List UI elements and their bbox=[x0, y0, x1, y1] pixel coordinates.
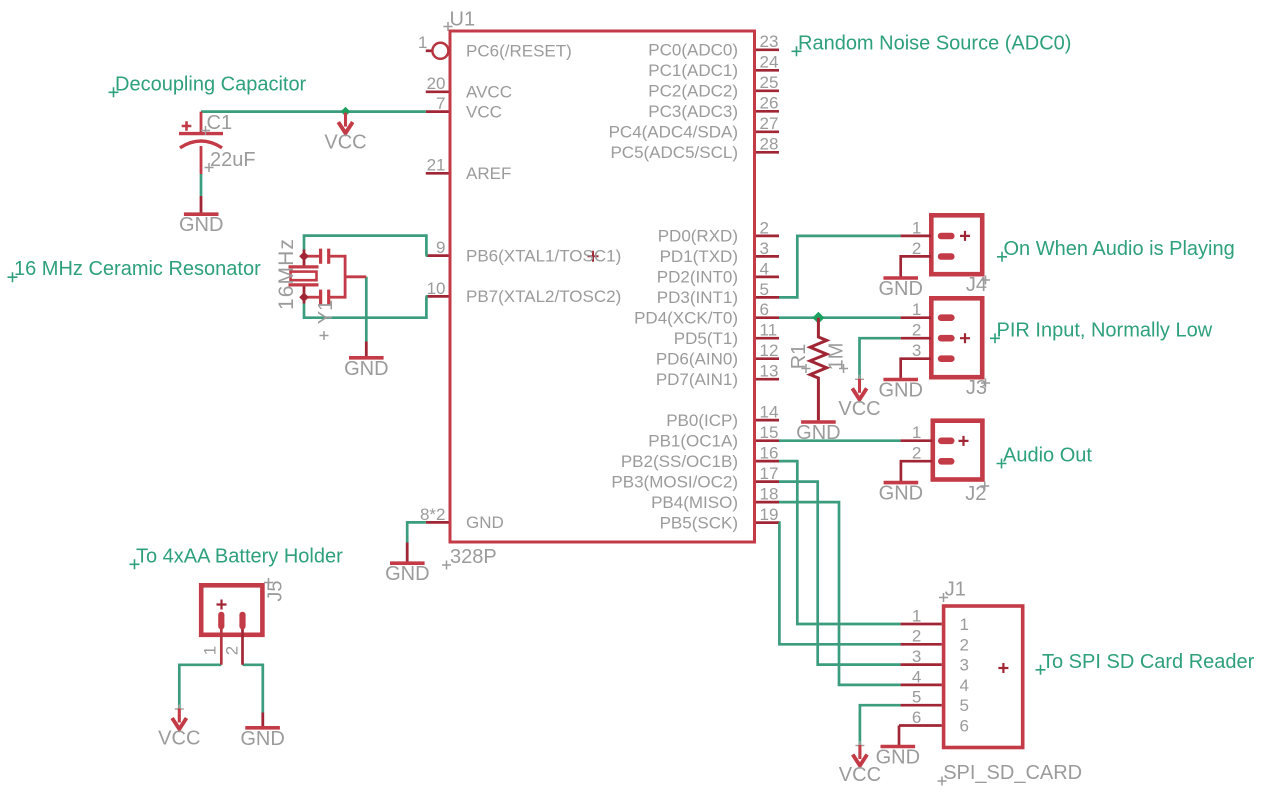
power VCC symbol near U1 pin 7 bbox=[324, 113, 366, 154]
svg-text:GND: GND bbox=[466, 513, 504, 532]
pin 6 PD4(XCK/T0) (right) bbox=[634, 300, 779, 327]
svg-text:27: 27 bbox=[760, 114, 779, 133]
connector J3 body bbox=[931, 298, 982, 377]
svg-text:PB6(XTAL1/TOSC1): PB6(XTAL1/TOSC1) bbox=[466, 246, 621, 265]
svg-text:18: 18 bbox=[760, 485, 779, 504]
wire PB2/SS net: U1 pin 16 to J1 pin 1 bbox=[779, 461, 901, 624]
pin 24 PC1(ADC1) (right) bbox=[648, 53, 779, 80]
junction resonator top node bbox=[299, 251, 309, 261]
pin 15 PB1(OC1A) (right) bbox=[648, 423, 779, 450]
wire PB4/MISO net: U1 pin 18 to J1 pin 4 bbox=[779, 502, 901, 685]
resistor R1 1M bbox=[810, 318, 827, 421]
svg-text:25: 25 bbox=[760, 73, 779, 92]
svg-text:3: 3 bbox=[760, 239, 769, 258]
svg-text:6: 6 bbox=[912, 708, 921, 727]
J5 pin 2 stub bbox=[241, 629, 244, 665]
svg-text:To SPI SD Card Reader: To SPI SD Card Reader bbox=[1042, 651, 1255, 673]
svg-text:1: 1 bbox=[912, 218, 921, 237]
svg-text:Decoupling Capacitor: Decoupling Capacitor bbox=[115, 73, 307, 95]
pin 16 PB2(SS/OC1B) (right) bbox=[621, 444, 779, 471]
svg-text:VCC: VCC bbox=[839, 764, 881, 786]
svg-text:3: 3 bbox=[912, 647, 921, 666]
J3 pin 3 stub bbox=[901, 359, 931, 379]
wire PD4 net: U1 pin 6 to J3 pin 1 bbox=[779, 316, 901, 319]
svg-text:2: 2 bbox=[912, 444, 921, 463]
power VCC symbol at J3 pin 2 bbox=[838, 375, 880, 420]
svg-text:Random Noise Source (ADC0): Random Noise Source (ADC0) bbox=[798, 32, 1071, 54]
svg-text:PD4(XCK/T0): PD4(XCK/T0) bbox=[634, 308, 738, 327]
pin 4 PD2(INT0) (right) bbox=[657, 259, 779, 286]
svg-text:2: 2 bbox=[912, 321, 921, 340]
svg-text:PB7(XTAL2/TOSC2): PB7(XTAL2/TOSC2) bbox=[466, 287, 621, 306]
svg-text:10: 10 bbox=[427, 279, 446, 298]
svg-text:J3: J3 bbox=[966, 377, 987, 399]
svg-text:GND: GND bbox=[385, 563, 429, 585]
pin 9 PB6(XTAL1/TOSC1) (left) bbox=[426, 238, 621, 265]
svg-text:GND: GND bbox=[879, 483, 923, 505]
svg-text:PD0(RXD): PD0(RXD) bbox=[658, 227, 738, 246]
J2 pin 1 stub bbox=[901, 439, 933, 442]
svg-text:GND: GND bbox=[179, 214, 223, 236]
svg-text:2: 2 bbox=[760, 218, 769, 237]
svg-text:VCC: VCC bbox=[158, 728, 200, 750]
ground below resonator Y1 bbox=[344, 358, 388, 380]
J1 pin 3 stub and numbers bbox=[901, 663, 942, 666]
svg-text:3: 3 bbox=[912, 341, 921, 360]
svg-text:PB0(ICP): PB0(ICP) bbox=[666, 411, 738, 430]
pin 7 VCC (left) bbox=[426, 94, 502, 121]
svg-text:On When Audio is Playing: On When Audio is Playing bbox=[1004, 238, 1235, 260]
svg-text:PC6(/RESET): PC6(/RESET) bbox=[466, 42, 572, 61]
svg-text:21: 21 bbox=[427, 156, 446, 175]
svg-text:PD6(AIN0): PD6(AIN0) bbox=[656, 349, 738, 368]
svg-text:15: 15 bbox=[760, 423, 779, 442]
svg-text:9: 9 bbox=[436, 238, 445, 257]
svg-text:PD3(INT1): PD3(INT1) bbox=[657, 288, 738, 307]
pin 28 PC5(ADC5/SCL) (right) bbox=[610, 135, 779, 162]
junction on VCC net at VCC symbol tap bbox=[341, 107, 351, 117]
op IC U1 ATmega328P body rectangle bbox=[450, 31, 755, 542]
connector J5 body (battery holder) bbox=[201, 585, 262, 635]
svg-text:11: 11 bbox=[760, 321, 778, 340]
capacitor C1 22uF (polarized) bbox=[179, 112, 223, 213]
pin 23 PC0(ADC0) (right) bbox=[648, 32, 779, 59]
wire XTAL2 net: resonator bottom to U1 pin 10 bbox=[304, 296, 426, 317]
wire PB1 net: U1 pin 15 to J2 pin 1 bbox=[779, 439, 901, 442]
svg-text:1: 1 bbox=[912, 423, 921, 442]
J2 pin 2 stub bbox=[901, 461, 933, 481]
ground at J2 pin 2 bbox=[879, 483, 923, 505]
wire XTAL1 net: resonator top to U1 pin 9 bbox=[304, 236, 426, 256]
svg-text:PD1(TXD): PD1(TXD) bbox=[660, 247, 738, 266]
svg-text:GND: GND bbox=[344, 358, 388, 380]
pin 3 PD1(TXD) (right) bbox=[660, 239, 779, 266]
svg-text:C1: C1 bbox=[207, 112, 233, 134]
connector J2 body bbox=[933, 421, 983, 480]
pin 25 PC2(ADC2) (right) bbox=[648, 73, 779, 100]
wire PB3/MOSI net: U1 pin 17 to J1 pin 3 bbox=[779, 482, 901, 665]
svg-text:SPI_SD_CARD: SPI_SD_CARD bbox=[943, 762, 1082, 784]
svg-text:PIR Input, Normally Low: PIR Input, Normally Low bbox=[997, 319, 1213, 341]
svg-text:17: 17 bbox=[760, 464, 779, 483]
ground at J1 pin 6 bbox=[876, 747, 920, 769]
pin 8*2 GND (left) bbox=[420, 505, 504, 532]
svg-text:PD7(AIN1): PD7(AIN1) bbox=[656, 370, 738, 389]
pin 19 PB5(SCK) (right) bbox=[660, 505, 779, 532]
ground below U1 bbox=[385, 563, 429, 585]
pin 20 AVCC (left) bbox=[426, 74, 512, 101]
svg-text:GND: GND bbox=[876, 747, 920, 769]
J4 pin 1 stub bbox=[901, 235, 931, 238]
svg-text:20: 20 bbox=[427, 74, 446, 93]
connector J1 body bbox=[944, 606, 1023, 748]
wire U1 GND pin to ground bbox=[407, 522, 426, 542]
J1 pin 1 stub and numbers bbox=[901, 623, 942, 626]
svg-text:23: 23 bbox=[760, 32, 779, 51]
svg-text:PB4(MISO): PB4(MISO) bbox=[651, 493, 738, 512]
svg-text:GND: GND bbox=[878, 380, 922, 402]
svg-text:2: 2 bbox=[960, 635, 969, 654]
svg-text:4: 4 bbox=[760, 259, 769, 278]
wire PD3 net: U1 pin 5 to J4 pin 1 bbox=[779, 236, 901, 298]
svg-text:5: 5 bbox=[912, 688, 921, 707]
svg-text:4: 4 bbox=[960, 676, 969, 695]
svg-text:PB2(SS/OC1B): PB2(SS/OC1B) bbox=[621, 452, 738, 471]
pin 11 PD5(T1) (right) bbox=[674, 321, 779, 348]
svg-text:14: 14 bbox=[760, 403, 779, 422]
svg-text:PD5(T1): PD5(T1) bbox=[674, 329, 738, 348]
pin 2 PD0(RXD) (right) bbox=[658, 218, 779, 245]
svg-text:PC5(ADC5/SCL): PC5(ADC5/SCL) bbox=[610, 143, 738, 162]
svg-text:8*2: 8*2 bbox=[420, 505, 446, 524]
junction on PD4 net at R1 bbox=[812, 312, 824, 324]
J1 pin 6 ground lead bbox=[898, 726, 901, 746]
svg-text:22uF: 22uF bbox=[210, 149, 256, 171]
wire J1 pin 5 to VCC bbox=[860, 705, 901, 745]
svg-text:PB3(MOSI/OC2): PB3(MOSI/OC2) bbox=[611, 472, 738, 491]
J1 pin 6 stub and numbers bbox=[899, 724, 942, 727]
pin 5 PD3(INT1) (right) bbox=[657, 280, 779, 307]
J5 pin 2 ground lead bbox=[261, 713, 264, 727]
power VCC symbol at J1 pin 5 bbox=[839, 741, 881, 786]
J1 pin 2 stub and numbers bbox=[901, 643, 942, 646]
power VCC symbol at J5 pin 1 bbox=[158, 705, 200, 750]
svg-text:1: 1 bbox=[912, 606, 921, 625]
svg-text:1: 1 bbox=[960, 615, 969, 634]
svg-text:Y1: Y1 bbox=[315, 300, 337, 324]
ground lead below U1 GND pin bbox=[406, 543, 409, 562]
svg-text:16 MHz Ceramic Resonator: 16 MHz Ceramic Resonator bbox=[14, 258, 261, 280]
pin 17 PB3(MOSI/OC2) (right) bbox=[611, 464, 779, 491]
svg-text:To 4xAA Battery Holder: To 4xAA Battery Holder bbox=[136, 545, 343, 567]
svg-text:6: 6 bbox=[760, 300, 769, 319]
svg-text:U1: U1 bbox=[450, 9, 476, 31]
pin 27 PC4(ADC4/SDA) (right) bbox=[609, 114, 779, 141]
svg-text:GND: GND bbox=[878, 278, 922, 300]
svg-text:19: 19 bbox=[760, 505, 779, 524]
pin 12 PD6(AIN0) (right) bbox=[656, 341, 779, 368]
svg-text:PC3(ADC3): PC3(ADC3) bbox=[648, 102, 738, 121]
svg-text:28: 28 bbox=[760, 135, 779, 154]
wire PB5/SCK net: U1 pin 19 to J1 pin 2 bbox=[779, 523, 901, 645]
Y1 value label 16MHz bbox=[275, 238, 298, 310]
ground lead below Y1 bbox=[365, 342, 368, 357]
J3 pin 1 stub bbox=[901, 316, 931, 319]
pin 21 AREF (left) bbox=[426, 156, 512, 183]
pin 26 PC3(ADC3) (right) bbox=[648, 94, 779, 121]
connector J4 body bbox=[931, 215, 982, 274]
svg-text:Audio Out: Audio Out bbox=[1003, 445, 1092, 467]
svg-text:1: 1 bbox=[912, 300, 921, 319]
pin 1 PC6(/RESET) (left) bbox=[418, 33, 572, 61]
svg-text:328P: 328P bbox=[450, 546, 497, 568]
svg-text:GND: GND bbox=[796, 422, 840, 444]
wire J5 pin 1 to VCC bbox=[179, 665, 221, 709]
svg-text:5: 5 bbox=[760, 280, 769, 299]
J4 pin 2 stub bbox=[901, 256, 931, 276]
ground at J5 pin 2 bbox=[240, 728, 284, 750]
wire resonator center pin to GND bbox=[365, 277, 368, 342]
wire J3 pin 2 to VCC bbox=[860, 338, 901, 379]
svg-text:13: 13 bbox=[760, 362, 779, 381]
svg-text:16: 16 bbox=[760, 444, 779, 463]
svg-text:2: 2 bbox=[223, 646, 242, 655]
resonator Y1 16MHz ceramic (3-terminal) bbox=[289, 249, 367, 305]
ground at J3 pin 3 bbox=[878, 380, 922, 402]
svg-text:12: 12 bbox=[760, 341, 779, 360]
svg-text:VCC: VCC bbox=[324, 132, 366, 154]
svg-text:2: 2 bbox=[912, 627, 921, 646]
J1 pin 5 stub and numbers bbox=[901, 704, 942, 707]
pin 14 PB0(ICP) (right) bbox=[666, 403, 779, 430]
svg-text:PD2(INT0): PD2(INT0) bbox=[657, 268, 738, 287]
svg-text:J4: J4 bbox=[966, 274, 987, 296]
junction resonator bottom node bbox=[299, 292, 309, 302]
J1 pin 4 stub and numbers bbox=[901, 684, 942, 687]
svg-text:VCC: VCC bbox=[838, 398, 880, 420]
pin 13 PD7(AIN1) (right) bbox=[656, 362, 779, 389]
svg-text:3: 3 bbox=[960, 656, 969, 675]
svg-text:26: 26 bbox=[760, 94, 779, 113]
svg-text:PC4(ADC4/SDA): PC4(ADC4/SDA) bbox=[609, 123, 738, 142]
U1 origin cross bbox=[588, 251, 599, 262]
J5 pin 1 stub bbox=[220, 629, 223, 665]
svg-text:6: 6 bbox=[960, 717, 969, 736]
svg-text:PC1(ADC1): PC1(ADC1) bbox=[648, 61, 738, 80]
svg-text:24: 24 bbox=[760, 53, 779, 72]
ground below C1 bbox=[179, 214, 223, 236]
svg-text:1: 1 bbox=[201, 646, 220, 655]
svg-text:4: 4 bbox=[912, 667, 921, 686]
svg-text:16MHz: 16MHz bbox=[275, 238, 298, 310]
ground below R1 bbox=[796, 422, 840, 444]
ground at J4 pin 2 bbox=[878, 278, 922, 300]
svg-text:PB1(OC1A): PB1(OC1A) bbox=[648, 431, 738, 450]
pin 10 PB7(XTAL2/TOSC2) (left) bbox=[426, 279, 621, 306]
wire VCC net: C1 top to U1 pin 7 bbox=[201, 110, 426, 113]
svg-text:GND: GND bbox=[240, 728, 284, 750]
svg-text:PC2(ADC2): PC2(ADC2) bbox=[648, 82, 738, 101]
svg-text:5: 5 bbox=[960, 696, 969, 715]
svg-text:VCC: VCC bbox=[466, 102, 502, 121]
svg-text:1: 1 bbox=[418, 33, 427, 52]
svg-text:AVCC: AVCC bbox=[466, 83, 512, 102]
J3 pin 2 stub bbox=[901, 337, 931, 340]
svg-text:AREF: AREF bbox=[466, 164, 511, 183]
wire J5 pin 2 to GND bbox=[243, 665, 263, 713]
pin 18 PB4(MISO) (right) bbox=[651, 485, 779, 512]
svg-text:7: 7 bbox=[436, 94, 445, 113]
svg-text:PC0(ADC0): PC0(ADC0) bbox=[648, 41, 738, 60]
svg-text:PB5(SCK): PB5(SCK) bbox=[660, 513, 738, 532]
svg-text:2: 2 bbox=[912, 239, 921, 258]
